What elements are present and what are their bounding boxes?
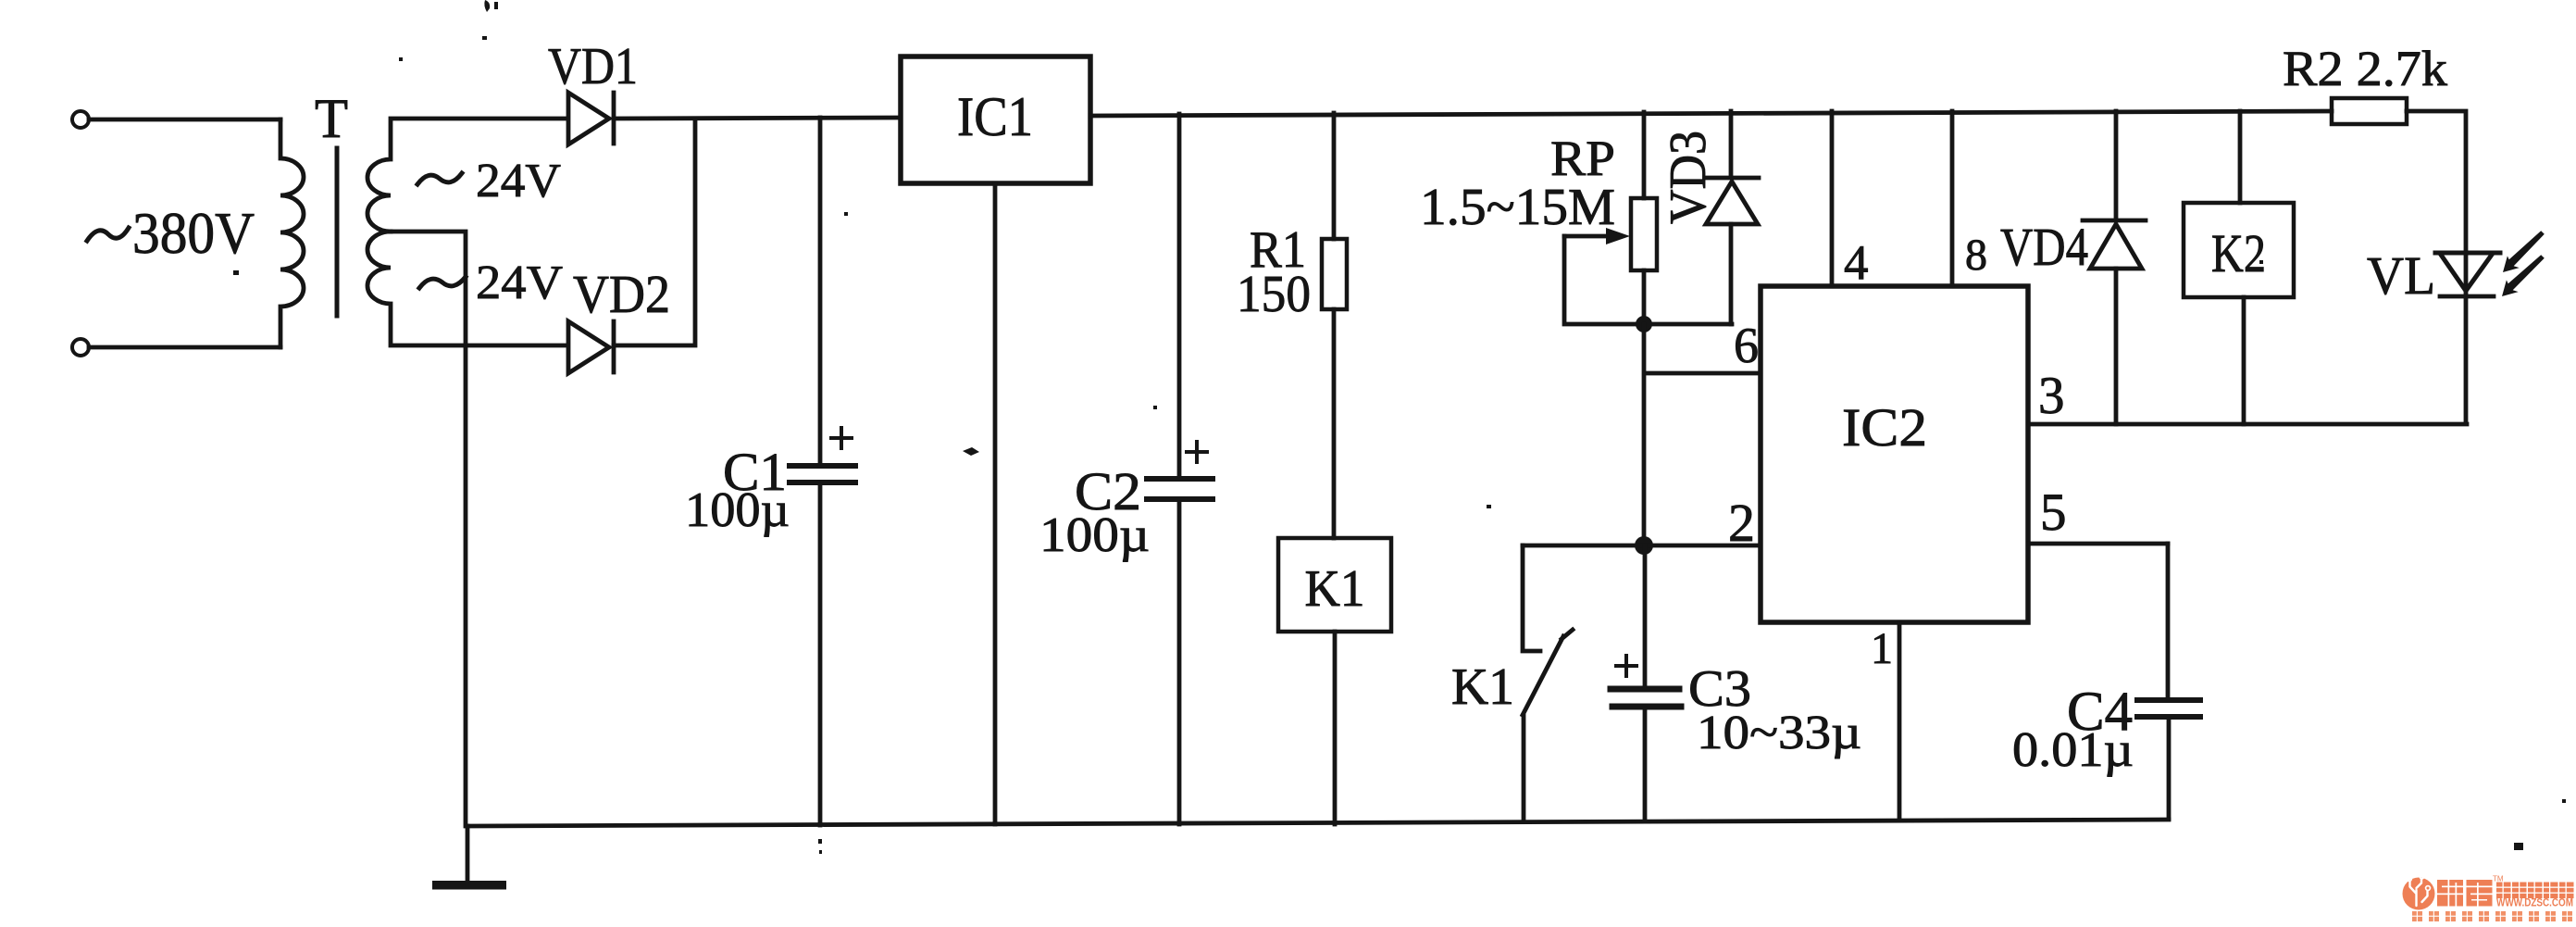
switch K1: [1523, 545, 1573, 821]
wire pin 3: [2029, 422, 2467, 427]
junction node pin2: [1635, 536, 1653, 555]
svg-text:VD1: VD1: [548, 38, 638, 95]
LED VL: [2435, 251, 2500, 256]
svg-text:VL: VL: [2367, 245, 2435, 306]
wire input top: [89, 118, 280, 122]
terminal input bottom: [72, 339, 89, 356]
svg-text:150: 150: [1237, 266, 1311, 323]
wire node to pin2 node: [1642, 324, 1647, 545]
resistor R1: [1332, 113, 1337, 538]
wire VD1 cathode to VD2 cathode: [614, 119, 695, 345]
wire pin 1: [1898, 622, 1902, 821]
svg-text:8: 8: [1965, 231, 1987, 280]
wire pin 4: [1830, 111, 1835, 286]
svg-text:100µ: 100µ: [1039, 508, 1150, 562]
transformer T primary winding: [280, 119, 304, 347]
svg-text:WWW.DZSC.COM: WWW.DZSC.COM: [2496, 896, 2573, 909]
polarity + C3: [1616, 656, 1636, 676]
terminal input top: [72, 111, 89, 128]
IC2: [1761, 286, 2028, 622]
wire center tap: [391, 232, 466, 826]
watermark logo circle: [2403, 874, 2435, 909]
transformer secondary winding upper: [367, 119, 567, 232]
LED light arrows: [2503, 231, 2545, 272]
label ~24V lower: [419, 277, 466, 288]
svg-text:5: 5: [2040, 483, 2067, 542]
svg-text:100µ: 100µ: [685, 483, 790, 537]
svg-text:2: 2: [1728, 493, 1755, 553]
wire pin 6: [1645, 371, 1761, 376]
svg-text:IC1: IC1: [957, 86, 1033, 147]
diode VD2: [568, 321, 614, 373]
svg-text:IC2: IC2: [1842, 397, 1927, 457]
wire K1 coil to rail: [1333, 632, 1338, 824]
label ~380V: [87, 228, 129, 241]
diode VD1: [568, 93, 614, 144]
diode VD3: [1705, 111, 1759, 324]
ground: [466, 826, 470, 881]
wire input bottom: [89, 345, 280, 350]
RP wiper return wire: [1564, 236, 1732, 324]
svg-text:24V: 24V: [476, 257, 563, 309]
capacitor C4: [2168, 544, 2169, 819]
svg-text:1.5~15M: 1.5~15M: [1420, 179, 1615, 236]
capacitor C2: [1177, 114, 1182, 824]
wire bottom rail: [467, 820, 2169, 826]
svg-text:4: 4: [1844, 236, 1869, 290]
wire pin 2: [1523, 544, 1761, 548]
watermark text 电子市场网: [2496, 883, 2574, 899]
polarity + C1: [831, 428, 852, 448]
label ~24V upper: [417, 173, 462, 184]
svg-text:10~33µ: 10~33µ: [1697, 707, 1861, 759]
wire pin 8: [1950, 111, 1955, 286]
wire top rail left: [614, 118, 901, 119]
svg-text:24V: 24V: [476, 155, 561, 207]
potentiometer RP: [1642, 112, 1647, 324]
svg-text:VD4: VD4: [2000, 217, 2088, 277]
svg-text:1: 1: [1871, 624, 1893, 673]
RP wiper arrow: [1564, 234, 1616, 239]
wire top rail right: [1090, 111, 2332, 116]
capacitor C1: [818, 118, 823, 825]
svg-text:6: 6: [1734, 318, 1759, 373]
svg-text:R2 2.7k: R2 2.7k: [2283, 41, 2447, 96]
wire IC1 ground lead: [993, 183, 998, 824]
svg-text:VD3: VD3: [1660, 131, 1717, 224]
svg-text:3: 3: [2038, 367, 2065, 425]
svg-text:RP: RP: [1550, 131, 1615, 186]
svg-text:K1: K1: [1451, 658, 1514, 716]
watermark slogan 专业电子元器件交易网站: [2412, 911, 2572, 921]
svg-text:VD2: VD2: [573, 264, 670, 324]
svg-text:0.01µ: 0.01µ: [2012, 723, 2134, 777]
relay coil K1: [1278, 538, 1391, 632]
capacitor C3: [1643, 545, 1648, 821]
transformer secondary winding lower: [367, 232, 567, 345]
svg-text:TM: TM: [2493, 875, 2504, 883]
svg-text:T: T: [315, 88, 348, 149]
svg-text:K1: K1: [1305, 560, 1365, 618]
polarity + C2: [1187, 442, 1207, 462]
wire rail to VL: [2407, 111, 2466, 296]
svg-text:380V: 380V: [132, 200, 255, 266]
transformer core: [335, 148, 340, 316]
svg-text:K2: K2: [2211, 223, 2266, 283]
diode VD4: [2083, 111, 2146, 424]
resistor R2: [2332, 98, 2407, 124]
junction node RP bottom: [1636, 316, 1652, 332]
wire pin 5: [2028, 542, 2168, 546]
IC1: [901, 56, 1090, 183]
watermark big text 维库: [2437, 880, 2493, 907]
relay coil K2: [2240, 111, 2244, 424]
